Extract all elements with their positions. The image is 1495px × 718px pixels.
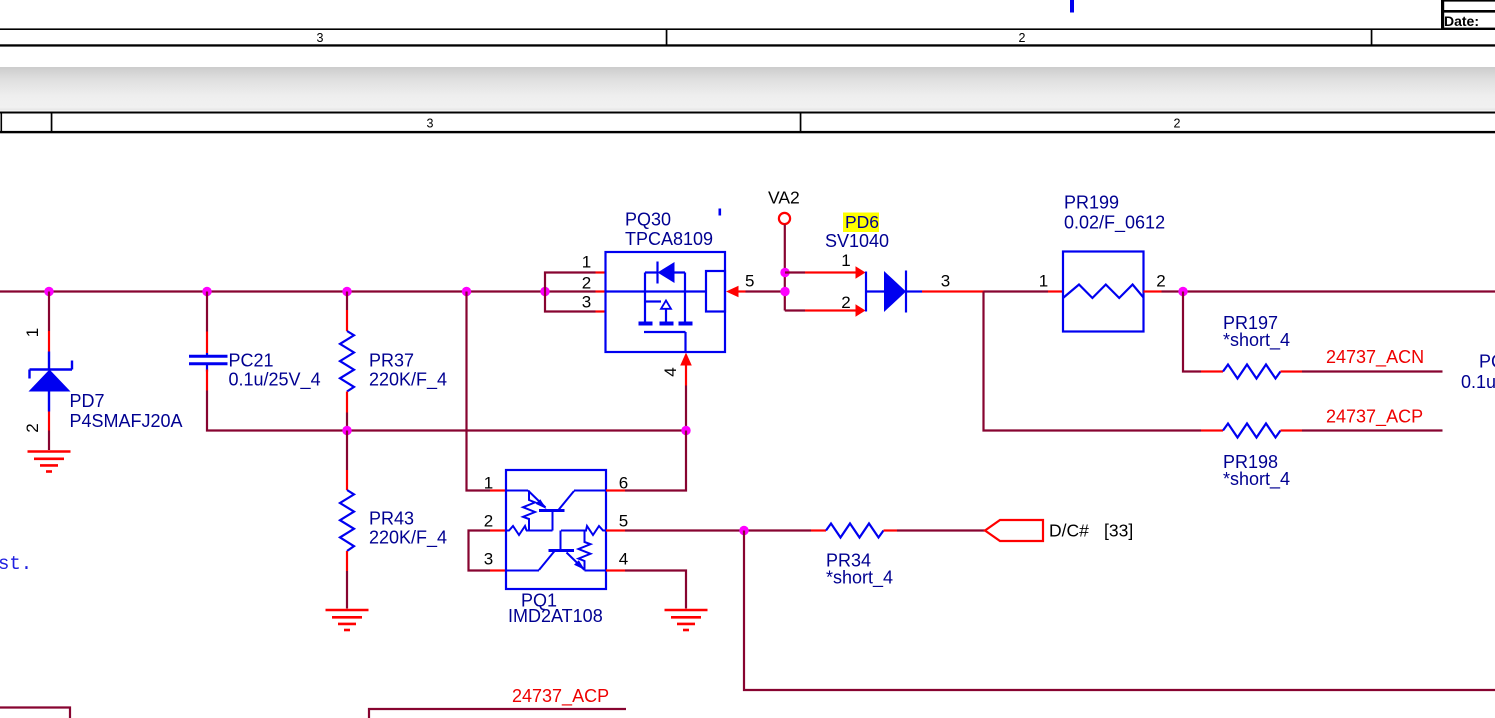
pin 2 stub PD6 xyxy=(805,309,856,311)
wire: pin5 net down and across bottom xyxy=(744,531,1495,691)
svg-text:220K/F_4: 220K/F_4 xyxy=(369,528,447,549)
svg-text:1: 1 xyxy=(1039,272,1048,291)
svg-text:PC2: PC2 xyxy=(1479,352,1495,372)
pin stub PR34 right xyxy=(884,529,898,531)
title block Date cell bottom border xyxy=(1441,28,1495,30)
svg-text:1: 1 xyxy=(23,328,42,337)
pin 2 stub PQ30 xyxy=(596,290,607,292)
svg-text:0.1u/25V_4: 0.1u/25V_4 xyxy=(229,370,321,391)
svg-text:0.1u/: 0.1u/ xyxy=(1461,372,1495,392)
title block top edge line xyxy=(1441,0,1495,2)
svg-text:0.02/F_0612: 0.02/F_0612 xyxy=(1064,213,1165,234)
svg-text:2: 2 xyxy=(23,423,42,432)
wire: PD6 pin3 to PR199 xyxy=(984,290,1049,292)
transistor PQ1 lower emitter arrow xyxy=(574,560,585,570)
wire: PR34 to D/C# port xyxy=(897,529,985,531)
ground (PQ1 pin4) xyxy=(665,610,708,630)
wire: PR197 to 24737_ACN xyxy=(1302,370,1443,372)
wire: bus to PQ1 pin1 xyxy=(467,292,491,491)
wire: PD6 pin1 feed xyxy=(785,271,805,273)
node junction dot at PQ1 branch xyxy=(462,287,471,296)
svg-text:PR37: PR37 xyxy=(369,351,414,371)
svg-text:4: 4 xyxy=(661,367,680,376)
capacitor PC21 branch wire xyxy=(206,292,208,332)
svg-text:P4SMAFJ20A: P4SMAFJ20A xyxy=(70,411,183,431)
svg-text:3: 3 xyxy=(427,117,434,131)
pin 2 stub PR199 xyxy=(1144,290,1162,292)
node junction dot at PR37 xyxy=(342,287,351,296)
svg-text:24737_ACP: 24737_ACP xyxy=(512,686,609,707)
pin 3 stub PQ30 xyxy=(596,310,607,312)
svg-text:VA2: VA2 xyxy=(768,188,800,208)
svg-text:1: 1 xyxy=(582,253,591,272)
svg-text:TPCA8109: TPCA8109 xyxy=(625,229,713,249)
pin 1 stub PR199 xyxy=(1048,290,1063,292)
svg-text:st.: st. xyxy=(0,553,32,575)
svg-text:PR43: PR43 xyxy=(369,509,414,529)
PQ30 mosfet terminal bars xyxy=(639,322,693,326)
wire: PQ1 pin4 to ground xyxy=(625,571,686,609)
transistor PQ1 lower device xyxy=(506,526,606,571)
diode PD6 highlight xyxy=(843,213,879,233)
page2 border row top line xyxy=(0,112,1495,114)
pin stub PR37 bottom xyxy=(346,392,348,413)
pin 2 stub PD7 xyxy=(48,412,50,431)
title block cell top border xyxy=(1441,10,1495,13)
svg-text:2: 2 xyxy=(1019,31,1026,45)
pin 6 stub PQ1 xyxy=(606,489,625,491)
capacitor PC21 leads xyxy=(206,353,208,372)
svg-text:220K/F_4: 220K/F_4 xyxy=(369,370,447,391)
capacitor PC21 symbol xyxy=(189,356,228,363)
svg-text:2: 2 xyxy=(484,512,493,531)
resistor PR199 box xyxy=(1063,252,1144,332)
node junction dot at PQ30 pins xyxy=(540,287,549,296)
svg-text:PD6: PD6 xyxy=(845,212,879,232)
wire: PQ1 pin5 to PR34 xyxy=(625,529,811,531)
page1 zone divider right xyxy=(1371,29,1373,46)
svg-text:3: 3 xyxy=(941,272,950,291)
node junction dot mid net / PQ30 pin4 xyxy=(681,426,690,435)
pin 3 stub PQ1 xyxy=(490,569,507,571)
wire: PR198 to 24737_ACP xyxy=(1302,429,1443,431)
wire: VA2 vertical xyxy=(784,225,786,311)
page1 border row top line xyxy=(0,28,1495,30)
resistor PR198 zigzag xyxy=(1223,424,1281,438)
resistor PR43 branch xyxy=(346,431,348,471)
svg-text:2: 2 xyxy=(1174,117,1181,131)
page1 border row bottom line xyxy=(0,44,1495,46)
svg-text:2: 2 xyxy=(841,293,850,312)
pin stub PR198 left xyxy=(1201,429,1223,431)
stray blue tick near PQ30 xyxy=(719,209,722,216)
svg-text:*short_4: *short_4 xyxy=(1223,469,1290,490)
diode PD7 symbol (TVS) xyxy=(30,352,73,412)
pin stub PR197 right xyxy=(1281,370,1303,372)
wire: PC21 down to mid net xyxy=(207,391,686,431)
node VA2 port circle xyxy=(779,213,790,224)
svg-text:PD7: PD7 xyxy=(70,391,105,411)
page2 border row bottom line xyxy=(0,131,1495,133)
pin 5 arrow PQ30 xyxy=(726,286,739,298)
wire: PD7 to ground xyxy=(48,431,50,451)
wire: PQ1 pin2/pin3 tie xyxy=(469,531,491,571)
page2 zone divider left edge xyxy=(1,113,3,131)
wire: PR43 to ground xyxy=(346,571,348,609)
resistor PR43 zigzag xyxy=(340,490,354,551)
svg-text:[33]: [33] xyxy=(1104,521,1133,541)
svg-text:5: 5 xyxy=(619,512,628,531)
svg-text:4: 4 xyxy=(619,550,628,569)
wire: branch down to PR198 xyxy=(984,292,1202,431)
svg-text:5: 5 xyxy=(745,272,754,291)
pin stub PR198 right xyxy=(1281,429,1303,431)
wire: main AC bus left segment xyxy=(0,290,596,292)
diode PD7 branch wire xyxy=(48,292,50,332)
pin stub PR37 top xyxy=(346,310,348,331)
node junction dot at PC21 xyxy=(202,287,211,296)
transistor PQ1 upper emitter arrow xyxy=(536,499,547,509)
node junction dot pin5 net xyxy=(739,526,748,535)
svg-text:Date:: Date: xyxy=(1444,13,1479,29)
node junction dot VA2/pin5 xyxy=(780,287,789,296)
svg-text:IMD2AT108: IMD2AT108 xyxy=(508,606,603,626)
svg-text:1: 1 xyxy=(484,474,493,493)
pin 4 stub PQ1 xyxy=(606,569,625,571)
wire: PD6 pin2 feed xyxy=(785,309,805,311)
node junction dot PR37/PR43 xyxy=(342,426,351,435)
svg-text:*short_4: *short_4 xyxy=(826,568,893,589)
PQ30 body diode filled triangle xyxy=(658,262,675,283)
pin stub PR43 top xyxy=(346,470,348,490)
svg-text:2: 2 xyxy=(582,274,591,293)
svg-text:1: 1 xyxy=(841,251,850,270)
wire: PQ30 pin4 down to mid net xyxy=(685,386,687,431)
page2 zone divider mid xyxy=(800,113,802,131)
resistor PR37 zigzag xyxy=(340,331,354,392)
wire: bottom left box edge xyxy=(0,708,70,718)
svg-text:PQ30: PQ30 xyxy=(625,210,671,230)
node junction dot right bus xyxy=(1178,287,1187,296)
svg-text:PR199: PR199 xyxy=(1064,193,1119,213)
wire: PR199 pin2 to right edge xyxy=(1162,290,1495,292)
pin 1 stub PD6 xyxy=(805,271,856,273)
wire: bottom mid box edge xyxy=(369,709,626,718)
title block cell divider (thick vertical, top right) xyxy=(1441,0,1444,30)
pin 5 stub xyxy=(739,290,746,292)
transistor PQ1 (IMD2AT108) box xyxy=(506,470,606,589)
page1 zone divider 3|2 xyxy=(666,29,668,46)
inter-page gray band xyxy=(0,67,1495,111)
diode PD7 triangle xyxy=(29,370,71,392)
wire: PQ30 pin1/pin3 tie loop xyxy=(545,273,596,312)
resistor PR34 zigzag xyxy=(826,524,884,538)
page2 zone divider left xyxy=(51,113,53,131)
pin 5 stub PQ1 xyxy=(606,529,625,531)
pin stub PR43 bottom xyxy=(346,551,348,571)
pin 4 stub xyxy=(685,366,687,386)
svg-text:24737_ACN: 24737_ACN xyxy=(1326,347,1424,368)
pin 1 arrow PD6 xyxy=(856,266,866,279)
svg-text:D/C#: D/C# xyxy=(1049,521,1089,541)
title-block blue tick (top edge) xyxy=(1070,0,1074,13)
svg-text:2: 2 xyxy=(1156,272,1165,291)
svg-text:SV1040: SV1040 xyxy=(825,231,889,251)
wire: PR37 to mid net xyxy=(346,413,348,431)
wire: pin5 to VA2 node xyxy=(746,290,786,292)
resistor PR37 branch xyxy=(346,292,348,311)
wire: PQ1 pin6 up to mid net xyxy=(625,431,686,491)
svg-text:3: 3 xyxy=(582,293,591,312)
transistor PQ30 (TPCA8109 p-ch MOSFET) body xyxy=(606,252,726,352)
pin 1 stub PQ30 xyxy=(596,271,607,273)
transistor PQ1 upper device xyxy=(506,491,606,536)
pin stub PC21 bottom xyxy=(206,370,208,391)
pin 2 arrow PD6 xyxy=(856,304,866,317)
resistor PR197 zigzag xyxy=(1223,365,1281,379)
pin 1 stub PQ1 xyxy=(490,489,507,491)
diode PD6 triangle xyxy=(884,271,906,312)
pin stub PR197 left xyxy=(1201,370,1223,372)
svg-text:24737_ACP: 24737_ACP xyxy=(1326,407,1423,428)
svg-text:3: 3 xyxy=(484,550,493,569)
ground (PD7) xyxy=(28,452,71,472)
svg-text:PC21: PC21 xyxy=(229,351,274,371)
port D/C# flag xyxy=(985,520,1043,541)
resistor PR199 zigzag xyxy=(1063,285,1144,299)
wire: branch down to PR197 xyxy=(1183,292,1201,372)
node junction dot at PD7 xyxy=(44,287,53,296)
PQ30 substrate arrow (open) xyxy=(661,301,671,309)
pin 2 stub PQ1 xyxy=(490,529,507,531)
pin stub PR34 left xyxy=(811,529,826,531)
svg-text:3: 3 xyxy=(317,31,324,45)
node junction dot VA2/pin1 xyxy=(780,268,789,277)
ground (PR43) xyxy=(326,610,369,630)
svg-text:*short_4: *short_4 xyxy=(1223,330,1290,351)
pin 1 stub PD7 xyxy=(48,331,50,352)
pin 3 stub PD6 xyxy=(922,290,984,292)
diode PD6 symbol xyxy=(866,271,922,313)
pin 4 arrow PQ30 xyxy=(680,353,692,366)
pin stub PC21 top xyxy=(206,332,208,354)
